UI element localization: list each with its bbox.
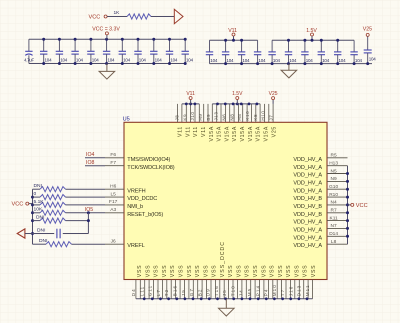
svg-text:B2: B2 [197,288,202,296]
pin A3 (RESET_b(IO5)) [105,207,163,218]
svg-text:VSS: VSS [245,265,251,277]
pin top lead 18 [250,104,252,122]
svg-text:R5: R5 [331,153,337,159]
pin bottom lead 23 [232,280,234,299]
junction [194,103,197,106]
svg-text:N7: N7 [331,223,337,229]
svg-text:104: 104 [306,58,314,63]
pin bottom lead 1 [135,280,137,299]
svg-text:K11: K11 [330,215,339,221]
wire vertical to IO5 [87,213,89,234]
svg-text:104: 104 [289,58,297,63]
svg-text:DNI: DNI [36,215,44,221]
svg-text:N8: N8 [229,114,234,121]
junction [152,38,155,41]
svg-text:VSS: VSS [162,265,168,277]
capacitor C21 (104) [350,40,362,63]
pin bottom lead 31 [267,280,269,299]
pin bottom lead 2 [139,280,141,299]
svg-text:IO5: IO5 [85,207,93,213]
svg-text:104: 104 [369,57,377,62]
svg-text:J5: J5 [222,289,227,296]
junction [287,62,290,65]
wire IO8 [85,165,105,167]
junction [265,297,268,300]
port arrow left [17,229,25,238]
svg-text:1K: 1K [114,10,121,16]
svg-text:VSS: VSS [187,265,193,277]
junction [185,103,188,106]
power port VCC (left) [12,202,29,208]
wire IO4 [85,157,105,159]
svg-text:VDD_HV_A: VDD_HV_A [293,157,322,163]
junction [224,39,227,42]
wire [367,37,369,51]
junction [105,38,108,41]
svg-text:104: 104 [155,58,163,63]
svg-text:B16: B16 [173,285,178,296]
svg-text:V15A: V15A [224,126,230,142]
capacitor C16 (104) [268,40,280,63]
svg-text:D14: D14 [329,231,338,237]
svg-text:J6: J6 [111,239,116,245]
power port 1.5V [306,28,317,40]
junction [74,38,77,41]
pin bottom lead 32 [272,280,274,299]
junction [216,103,219,106]
svg-text:VSS: VSS [303,265,309,277]
junction [271,62,274,65]
capacitor C7 (104) [119,39,131,63]
svg-text:104: 104 [123,58,131,63]
pin bottom lead 28 [254,280,256,299]
svg-text:VSS: VSS [137,265,143,277]
junction [42,38,45,41]
capacitor C14 (104) [238,40,250,63]
svg-text:N9: N9 [331,176,337,182]
svg-text:VDD_HV_A: VDD_HV_A [293,188,322,194]
svg-text:V15A: V15A [209,126,215,142]
svg-text:VREFH: VREFH [127,188,145,194]
svg-text:A3: A3 [110,207,116,213]
pin top lead 22 [268,104,270,122]
junction [168,38,171,41]
pin bottom lead 33 [276,280,278,299]
capacitor C3 (104) [56,39,68,63]
svg-text:0: 0 [34,191,37,197]
junction [184,38,187,41]
svg-text:104: 104 [92,58,100,63]
svg-text:N4: N4 [331,200,337,206]
power port VCC = 3.3V [92,27,120,40]
svg-text:VSS: VSS [294,265,300,277]
svg-text:VDD_HV_A: VDD_HV_A [293,173,322,179]
svg-text:G11: G11 [148,285,153,297]
junction [353,62,356,65]
wire 1.5V [212,103,260,105]
svg-text:VDD_HV_A: VDD_HV_A [293,235,322,241]
pin bottom lead 7 [161,280,163,299]
junction [175,297,178,300]
pin bottom lead 15 [197,280,199,299]
svg-text:V15A: V15A [248,126,254,142]
svg-text:F6: F6 [110,152,116,158]
svg-text:VSS: VSS [311,265,317,277]
junction [336,39,339,42]
junction [200,297,203,300]
svg-text:VDD_HV_A: VDD_HV_A [293,243,322,249]
junction [58,38,61,41]
svg-text:VSS_DCDC: VSS_DCDC [220,241,226,277]
wire bus top of left cap bank [29,38,185,40]
svg-text:G7: G7 [189,288,194,296]
junction [249,297,252,300]
svg-text:IO8: IO8 [86,160,94,166]
svg-text:104: 104 [45,58,53,63]
svg-text:VCC: VCC [89,15,101,21]
junction [289,297,292,300]
svg-text:U5: U5 [123,117,130,123]
capacitor C22 (104) [364,50,377,64]
svg-text:V15A: V15A [217,126,223,142]
junction [184,297,187,300]
junction [89,38,92,41]
wire vertical VCC bus right [347,166,349,245]
junction [31,232,34,235]
svg-text:D9: D9 [206,288,211,296]
pin bottom lead 18 [210,280,212,299]
pin N9 (VDD_HV_A) [293,176,347,186]
svg-text:V15A: V15A [256,126,262,142]
svg-text:104: 104 [226,58,234,63]
svg-text:VSS: VSS [253,265,259,277]
svg-text:B9: B9 [206,114,211,121]
capacitor C13 (104) [222,40,234,63]
svg-text:VDD_HV_A: VDD_HV_A [293,181,322,187]
svg-text:V25: V25 [271,126,277,137]
junction [31,203,34,206]
pin bottom lead 14 [192,280,194,299]
junction [232,39,235,42]
capacitor C20 (104) [334,40,346,63]
junction [287,39,290,42]
svg-text:5.1K: 5.1K [34,199,45,205]
power port V11 [228,28,237,40]
svg-text:VDD_HV_B: VDD_HV_B [293,212,322,218]
junction [31,196,34,199]
wire [29,203,33,205]
svg-text:VSS: VSS [261,265,267,277]
pin top lead 14 [233,104,235,122]
junction [87,219,90,222]
svg-text:V11: V11 [193,126,199,137]
capacitor C10 (104) [166,39,178,63]
ground [106,64,108,72]
wire [107,16,127,18]
svg-text:M10: M10 [272,284,277,296]
svg-text:VCC: VCC [12,202,24,208]
pin H6 (VREFH) [105,184,146,195]
svg-text:J9: J9 [181,289,186,296]
junction [311,39,314,42]
junction [336,62,339,65]
pin bottom lead 4 [148,280,150,299]
svg-text:V15A: V15A [232,126,238,142]
svg-text:TMS/SWDIO(IO4): TMS/SWDIO(IO4) [127,157,170,163]
svg-text:K8: K8 [253,114,258,121]
junction [224,62,227,65]
pin top lead 4 [190,104,192,122]
IC U5 body [124,122,327,279]
pin bottom lead 13 [188,280,190,299]
svg-text:N5: N5 [331,168,337,174]
svg-text:104: 104 [170,58,178,63]
svg-text:M11: M11 [305,284,310,296]
svg-text:N6: N6 [222,114,227,121]
svg-text:VCC: VCC [356,203,368,209]
pin bottom lead 16 [201,280,203,299]
pin H13 (VDD_HV_A) [293,161,347,171]
junction [346,219,349,222]
pin bottom lead 27 [250,280,252,299]
junction [320,62,323,65]
power port 1.5V (top) [232,91,243,104]
pin top lead 13 [229,104,231,122]
svg-text:J4: J4 [239,289,244,296]
svg-text:104: 104 [76,58,84,63]
svg-text:104: 104 [339,58,347,63]
svg-text:K9: K9 [182,114,187,121]
svg-text:T7: T7 [280,289,285,297]
svg-text:VSS: VSS [278,265,284,277]
pin top lead 1 [177,104,179,122]
pin F17 (NMI_b) [105,199,143,210]
svg-text:RESET_b(IO5): RESET_b(IO5) [127,212,163,218]
pin bottom lead 38 [298,280,300,299]
svg-text:M5: M5 [247,288,252,297]
pin top lead 7 [203,104,205,122]
svg-text:104: 104 [210,58,218,63]
ground [288,64,290,71]
junction [236,103,239,106]
capacitor C11 (104) [182,39,194,63]
pin R5 (VDD_HV_A) [293,153,347,163]
ground [225,299,227,309]
svg-text:L5: L5 [111,191,117,197]
wire vertical VCC bus [32,189,34,244]
pin J6 (VREFL) [105,239,145,250]
pin N7 (VDD_HV_A) [293,223,347,233]
junction [346,172,349,175]
junction [257,297,260,300]
junction [273,297,276,300]
pin top lead 5 [194,104,196,122]
capacitor C15 (104) [254,40,266,63]
resistor DNI (to VREFL) [33,238,106,247]
junction [306,297,309,300]
svg-text:T16: T16 [214,285,219,296]
junction IO5 [87,211,90,214]
svg-text:H13: H13 [329,161,338,167]
capacitor C2 (104) [40,39,52,63]
pin bottom lead 37 [294,280,296,299]
wire bus top of V11 cap bank [210,39,258,41]
svg-text:H9: H9 [198,114,203,121]
svg-text:D4: D4 [131,288,136,296]
junction [346,196,349,199]
capacitor C12 (104) [206,40,218,63]
power port VCC (right) [348,203,368,209]
resistor 5.1K [33,199,106,208]
capacitor C18 (104) [301,40,313,63]
pin bottom lead 34 [281,280,283,299]
svg-text:P4: P4 [264,288,269,296]
junction [121,38,124,41]
svg-text:V15A: V15A [264,126,270,142]
svg-text:VDD_HV_B: VDD_HV_B [293,196,322,202]
svg-text:TCK/SWDCLK(IO8): TCK/SWDCLK(IO8) [127,165,174,171]
wire bus top of 1.5V cap bank [272,39,354,41]
pin bottom lead 17 [206,280,208,299]
pin F7 (TCK/SWDCLK(IO8)) [105,160,175,171]
svg-text:L7: L7 [156,289,161,296]
svg-text:H10: H10 [261,111,266,121]
svg-text:L8: L8 [331,239,337,245]
junction [303,39,306,42]
capacitor DNI [33,228,89,239]
pin bottom lead 36 [289,280,291,299]
svg-text:V25: V25 [269,91,278,97]
pin top lead 12 [224,104,226,122]
svg-text:VDD_HV_A: VDD_HV_A [293,220,322,226]
pin top lead 15 [237,104,239,122]
pin bottom lead 24 [236,280,238,299]
svg-text:J13: J13 [214,112,219,121]
pin bottom lead 3 [144,280,146,299]
pin top lead 21 [264,104,266,122]
power port V25 [363,27,372,37]
svg-text:VSS: VSS [145,265,151,277]
svg-text:VSS: VSS [154,265,160,277]
svg-text:104: 104 [273,58,281,63]
svg-text:104: 104 [107,58,115,63]
resistor DNI [33,183,106,192]
pin top lead 10 [216,104,218,122]
pin top lead 20 [259,104,261,122]
junction [240,39,243,42]
wire V11 [182,103,199,105]
pin L5 (VDD_DCDC) [105,191,157,202]
junction [303,62,306,65]
svg-text:V11: V11 [178,126,184,137]
resistor 1K [114,10,152,19]
svg-text:VSS: VSS [228,265,234,277]
junction [346,211,349,214]
wire bus bottom of left cap bank [29,63,185,65]
capacitor C4 (104) [71,39,83,63]
pin bottom lead 29 [259,280,261,299]
svg-text:L11: L11 [139,286,144,297]
pin bottom lead 11 [179,280,181,299]
junction [143,297,146,300]
junction [208,297,211,300]
pin top lead 19 [255,104,257,122]
svg-text:R10: R10 [329,192,338,198]
svg-text:VSS: VSS [170,265,176,277]
junction [31,211,34,214]
junction [224,103,227,106]
pin bottom lead 19 [214,280,216,299]
junction [366,62,369,65]
pin bottom lead 10 [175,280,177,299]
svg-text:104: 104 [139,58,147,63]
svg-text:T2: T2 [164,289,169,297]
resistor 0 [33,191,106,200]
wire bus bottom of middle cap banks [210,63,373,65]
svg-text:VSS: VSS [237,265,243,277]
pin top lead 11 [220,104,222,122]
svg-text:DNI: DNI [37,228,45,234]
junction [248,103,251,106]
junction [256,103,259,106]
pin top lead 23 [272,104,274,122]
pin N5 (VDD_HV_A) [293,168,347,178]
junction [189,103,192,106]
svg-text:104: 104 [186,58,194,63]
pin top lead 3 [185,104,187,122]
pin R7 (VDD_HV_B) [293,208,347,218]
junction [240,62,243,65]
pin top lead 9 [211,104,213,122]
pin F6 (TMS/SWDIO(IO4)) [105,152,171,163]
pin L8 (VDD_HV_A) [293,239,347,249]
capacitor C19 (104) [318,40,330,63]
svg-text:NMI_b: NMI_b [127,204,143,210]
pin bottom lead 21 [223,280,225,299]
pin bottom lead 6 [157,280,159,299]
pin D14 (VDD_HV_A) [293,231,347,241]
pin bottom lead 9 [170,280,172,299]
capacitor C5 (104) [87,39,99,63]
svg-text:104: 104 [242,58,250,63]
pin bottom lead 25 [241,280,243,299]
junction [241,297,244,300]
svg-text:D13: D13 [297,285,302,297]
pin top lead 2 [181,104,183,122]
power port V25 (top) [269,91,278,104]
power port V11 (top) [186,91,195,104]
junction [346,227,349,230]
pin bottom lead 22 [228,280,230,299]
svg-text:V15A: V15A [240,126,246,142]
pin top lead 17 [246,104,248,122]
junction [346,180,349,183]
capacitor C6 (104) [103,39,115,63]
svg-text:J8: J8 [175,115,180,121]
junction [346,188,349,191]
pin top lead 8 [207,104,209,122]
junction [151,297,154,300]
capacitor C8 (104) [134,39,146,63]
svg-text:DNI: DNI [39,238,47,244]
junction [216,297,219,300]
junction [137,38,140,41]
svg-text:IO4: IO4 [86,152,94,158]
svg-text:K10: K10 [245,111,250,121]
pin bottom lead 39 [303,280,305,299]
svg-text:104: 104 [60,58,68,63]
junction [281,297,284,300]
